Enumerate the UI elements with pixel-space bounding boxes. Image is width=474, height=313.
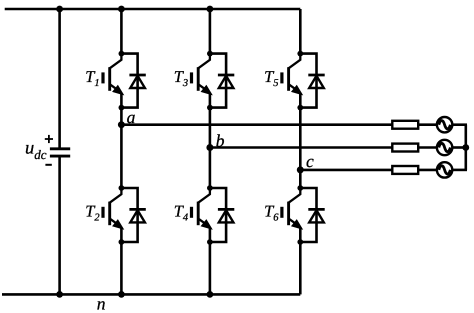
wire: resistor Rb to source [418, 146, 437, 149]
node c [297, 166, 304, 173]
wire: diode branch loop of T1 [121, 54, 137, 108]
AC source ea (phase a) [437, 117, 452, 132]
junction: leg1 bottom on -bus [118, 291, 125, 298]
wire: leg upper segment [209, 9, 212, 54]
wire: negative DC bus (bottom rail) [2, 293, 300, 296]
wire: source ea to neutral bus [452, 123, 467, 126]
capacitor C (DC-link) [50, 149, 70, 156]
svg-text:T1: T1 [85, 67, 99, 89]
wire: diode branch loop of T5 [300, 54, 316, 108]
wire: leg middle segment [209, 108, 212, 189]
svg-text:T2: T2 [85, 201, 100, 223]
junction: T1 emitter tie [119, 105, 125, 111]
wire: source ec to neutral bus [452, 169, 467, 172]
junction: T4 emitter tie [207, 239, 213, 245]
wire: leg middle segment [120, 108, 123, 189]
wire: phase c to load [391, 169, 394, 172]
AC source eb (phase b) [437, 140, 452, 155]
wire: capacitor branch upper [58, 9, 61, 148]
wire: leg lower segment [209, 242, 212, 294]
transistor T5 (IGBT) [282, 54, 302, 108]
svg-text:a: a [127, 107, 136, 127]
svg-text:T3: T3 [174, 67, 188, 89]
resistor Ra (phase a) [392, 121, 418, 129]
label + polarity [45, 135, 53, 143]
svg-text:n: n [97, 294, 106, 313]
wire: phase c line from node c [300, 169, 392, 172]
junction: T6 collector tie [297, 185, 303, 191]
wire: leg upper segment [299, 9, 302, 54]
diode D5 (antiparallel) [308, 75, 324, 88]
wire: phase b to load [391, 146, 394, 149]
diode D4 (antiparallel) [218, 209, 234, 222]
wire: resistor Rc to source [418, 169, 437, 172]
junction: T2 collector tie [119, 185, 125, 191]
junction: T3 collector tie [207, 51, 213, 57]
svg-text:b: b [216, 131, 225, 151]
junction: T5 collector tie [297, 51, 303, 57]
junction: capacitor top on +bus [56, 6, 63, 13]
transistor T3 (IGBT) [192, 54, 212, 108]
svg-text:udc: udc [25, 139, 47, 163]
node b [206, 144, 213, 151]
wire: leg middle segment [299, 108, 302, 189]
svg-text:T5: T5 [264, 67, 278, 89]
transistor T2 (IGBT) [103, 188, 123, 242]
junction: T6 emitter tie [297, 239, 303, 245]
junction: T1 collector tie [119, 51, 125, 57]
wire: diode branch loop of T4 [210, 188, 226, 242]
svg-text:T4: T4 [174, 201, 189, 223]
diode D2 (antiparallel) [129, 209, 145, 222]
node a [118, 121, 125, 128]
junction: T2 emitter tie [119, 239, 125, 245]
transistor T1 (IGBT) [103, 54, 123, 108]
diode D3 (antiparallel) [218, 75, 234, 88]
wire: leg lower segment [299, 242, 302, 294]
resistor Rb (phase b) [392, 144, 418, 152]
wire: leg upper segment [120, 9, 123, 54]
junction: leg1 top on +bus [118, 6, 125, 13]
junction: capacitor bottom on -bus [56, 291, 63, 298]
junction: T4 collector tie [207, 185, 213, 191]
resistor Rc (phase c) [392, 166, 418, 174]
transistor T4 (IGBT) [192, 188, 212, 242]
junction: neutral tie [462, 144, 469, 151]
wire: diode branch loop of T3 [210, 54, 226, 108]
junction: T3 emitter tie [207, 105, 213, 111]
wire: diode branch loop of T2 [121, 188, 137, 242]
svg-text:T6: T6 [264, 201, 279, 223]
wire: diode branch loop of T6 [300, 188, 316, 242]
wire: phase a line from node a [121, 123, 392, 126]
junction: leg2 top on +bus [207, 6, 214, 13]
junction: leg2 bottom on -bus [207, 291, 214, 298]
wire: source eb to neutral bus [452, 146, 467, 149]
wire: phase b line from node b [210, 146, 392, 149]
transistor T6 (IGBT) [282, 188, 302, 242]
wire: positive DC bus (top rail) [5, 8, 301, 11]
wire: phase a to load [391, 123, 394, 126]
AC source ec (phase c) [437, 162, 452, 177]
wire: resistor Ra to source [418, 123, 437, 126]
diode D1 (antiparallel) [129, 75, 145, 88]
svg-text:c: c [306, 151, 314, 171]
wire: leg lower segment [120, 242, 123, 294]
diode D6 (antiparallel) [308, 209, 324, 222]
wire: capacitor branch lower [58, 157, 61, 294]
wire: load neutral bus [464, 125, 467, 170]
junction: T5 emitter tie [297, 105, 303, 111]
label - polarity [45, 164, 51, 166]
